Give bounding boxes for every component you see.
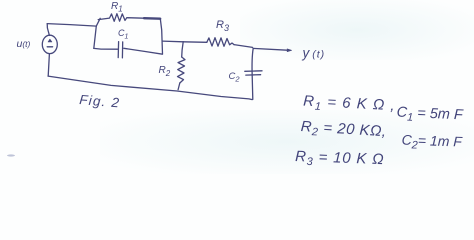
wire bottom horizontal: [48, 76, 252, 100]
wire node A to R3: [183, 41, 207, 44]
capacitor C2: [245, 71, 262, 75]
resistor R2: [178, 57, 186, 83]
output arrowhead: [287, 49, 291, 52]
voltage source minus mark: [47, 46, 52, 48]
wire box bottom right: [124, 48, 163, 54]
voltage source U1 circle: [42, 35, 57, 53]
wire R2 to bottom: [178, 83, 180, 90]
wire node B down through C2: [252, 48, 253, 99]
voltage source plus mark: [48, 39, 52, 42]
svg-text:u(t): u(t): [17, 38, 31, 50]
wire box bottom left: [94, 47, 118, 50]
stray ink dot: [7, 154, 15, 156]
wire box right bar: [160, 19, 162, 54]
resistor R1: [98, 14, 144, 22]
wire box to node A: [163, 40, 184, 43]
wire R3 to node B: [234, 45, 253, 48]
wire node B to output arrow: [253, 48, 287, 50]
resistor R3: [207, 38, 234, 47]
capacitor C1: [118, 42, 123, 58]
wire node A down to R2: [182, 42, 184, 57]
paper background: [0, 0, 474, 174]
wire box top right (retraced): [144, 17, 160, 20]
wire box left bar: [94, 18, 100, 48]
wire top horizontal: [47, 24, 96, 27]
wire source top to corner: [47, 24, 49, 36]
wire source bottom: [48, 54, 49, 76]
svg-text:y(t): y(t): [302, 46, 326, 61]
